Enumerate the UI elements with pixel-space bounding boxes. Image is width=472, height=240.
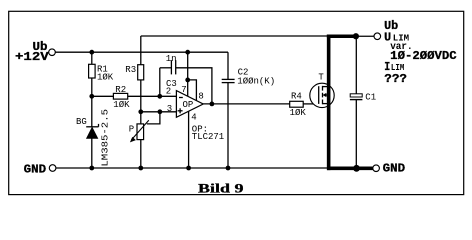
terminal circle +12V xyxy=(49,49,56,56)
zener anode triangle xyxy=(87,127,98,138)
wire node A to zener BG xyxy=(91,96,93,127)
capacitor C1 electrolytic xyxy=(350,93,376,103)
svg-text:TLC271: TLC271 xyxy=(192,132,224,142)
node gnd pin4 xyxy=(186,166,191,171)
wire C3 to output node xyxy=(176,68,212,104)
C1 positive plate xyxy=(350,94,362,97)
wire opamp output xyxy=(203,103,290,105)
node pin7-pin8 tap xyxy=(185,78,190,83)
wire thin to Ub terminal xyxy=(356,35,374,37)
resistor R4 xyxy=(290,92,307,118)
svg-text:LM385-2.5: LM385-2.5 xyxy=(100,109,111,167)
wire thick ground bottom xyxy=(327,167,373,171)
zener cathode bar xyxy=(86,126,98,128)
svg-text:Bild 9: Bild 9 xyxy=(198,180,244,195)
zener diode BG LM385-2.5 xyxy=(76,109,111,167)
wire BG to ground rail xyxy=(91,138,93,168)
pot wiper arrow diagonal xyxy=(132,120,149,140)
resistor R1 xyxy=(89,64,114,82)
wire R1 top lead xyxy=(91,52,93,64)
wire C1 bottom lead xyxy=(355,100,357,168)
potentiometer P xyxy=(129,120,149,142)
wire R4 to gate xyxy=(303,103,319,105)
wire opamp supply vertical pin7 xyxy=(187,52,189,96)
node gnd pot xyxy=(138,166,143,171)
border frame xyxy=(9,11,464,194)
wire thick output top xyxy=(327,34,356,38)
C1 negative plate xyxy=(350,99,363,101)
node R3-pot-pin3 xyxy=(138,109,143,114)
wire R3 bottom lead to pin3 node xyxy=(140,80,142,112)
wire R1 bottom lead xyxy=(91,78,93,96)
svg-text:2: 2 xyxy=(166,86,171,96)
svg-text:1ØK: 1ØK xyxy=(290,108,307,118)
svg-text:BG: BG xyxy=(76,117,87,127)
node output-feedback junction xyxy=(210,102,215,107)
node wiper tap xyxy=(158,109,163,114)
wire pot wiper to pin3 wire xyxy=(147,112,160,124)
wire pin 8 xyxy=(188,80,197,101)
mosfet channel dashed xyxy=(322,86,324,104)
svg-text:P: P xyxy=(129,124,134,134)
wire pot bottom lead xyxy=(140,140,142,168)
wire node A to R2 xyxy=(92,95,114,97)
capacitor C2 100n xyxy=(222,68,275,87)
mosfet source tap xyxy=(323,103,329,105)
transistor T mosfet xyxy=(310,73,334,108)
resistor R2 xyxy=(113,85,130,110)
wire top rail +12V xyxy=(55,51,228,53)
svg-text:GND: GND xyxy=(383,162,406,176)
C2 plates xyxy=(222,78,235,80)
wire feedback top line to output xyxy=(141,35,327,37)
terminal Ub +12V xyxy=(15,40,55,64)
resistor R3 xyxy=(125,65,143,80)
terminal GND right xyxy=(373,162,405,176)
node rail-R1 xyxy=(89,50,94,55)
node A reference node xyxy=(89,94,94,99)
svg-text:7: 7 xyxy=(181,85,186,95)
svg-text:T: T xyxy=(318,73,324,83)
wire R2 to opamp pin 2 xyxy=(128,95,177,97)
svg-text:3: 3 xyxy=(167,104,172,114)
wire ground rail xyxy=(56,167,327,169)
node C1 bottom thick xyxy=(353,165,360,172)
wire C2 bottom lead xyxy=(227,83,229,168)
op-amp OP TLC271 xyxy=(166,85,224,142)
C3 plates xyxy=(170,60,172,74)
svg-text:GND: GND xyxy=(24,163,47,177)
node rail-opamp supply xyxy=(185,50,190,55)
svg-text:???: ??? xyxy=(384,72,407,86)
wire pot top lead xyxy=(140,112,142,124)
svg-text:4: 4 xyxy=(191,113,196,123)
mosfet substrate tap with arrow xyxy=(326,94,329,96)
svg-text:R2: R2 xyxy=(115,85,126,95)
svg-text:1ØK: 1ØK xyxy=(97,72,114,82)
capacitor C3 1n xyxy=(166,54,177,89)
terminal GND left xyxy=(24,163,56,177)
wire R3 top lead xyxy=(140,36,142,65)
svg-text:1ØØn(K): 1ØØn(K) xyxy=(237,76,275,86)
wire C3 feedback left vertical xyxy=(159,68,161,97)
svg-text:1ØK: 1ØK xyxy=(113,100,130,110)
node C1 top thick xyxy=(353,33,359,39)
svg-text:+12V: +12V xyxy=(15,50,49,64)
svg-text:8: 8 xyxy=(198,91,203,101)
node gnd C2 xyxy=(226,166,231,171)
svg-text:R4: R4 xyxy=(291,92,302,102)
svg-text:C1: C1 xyxy=(365,93,376,103)
node feedback C3 tap xyxy=(157,94,162,99)
minus sign inverting input xyxy=(179,97,183,99)
wire thick vertical drain-source xyxy=(327,35,331,171)
mosfet body circle xyxy=(310,83,334,107)
wire C1 top lead xyxy=(355,36,357,94)
wire opamp pin 4 to ground xyxy=(188,111,190,168)
mosfet drain tap xyxy=(323,86,329,88)
node gnd BG xyxy=(89,166,94,171)
svg-text:1n: 1n xyxy=(166,54,177,64)
mosfet gate bar xyxy=(318,86,320,104)
svg-text:OP: OP xyxy=(183,100,194,110)
wire C3 feedback top xyxy=(160,67,172,69)
wire C2 top lead xyxy=(227,52,229,79)
wire pin3 xyxy=(141,111,177,113)
svg-text:R3: R3 xyxy=(125,65,136,75)
terminal output Ub ULIM xyxy=(374,33,381,40)
plus sign non-inverting input xyxy=(178,110,183,112)
